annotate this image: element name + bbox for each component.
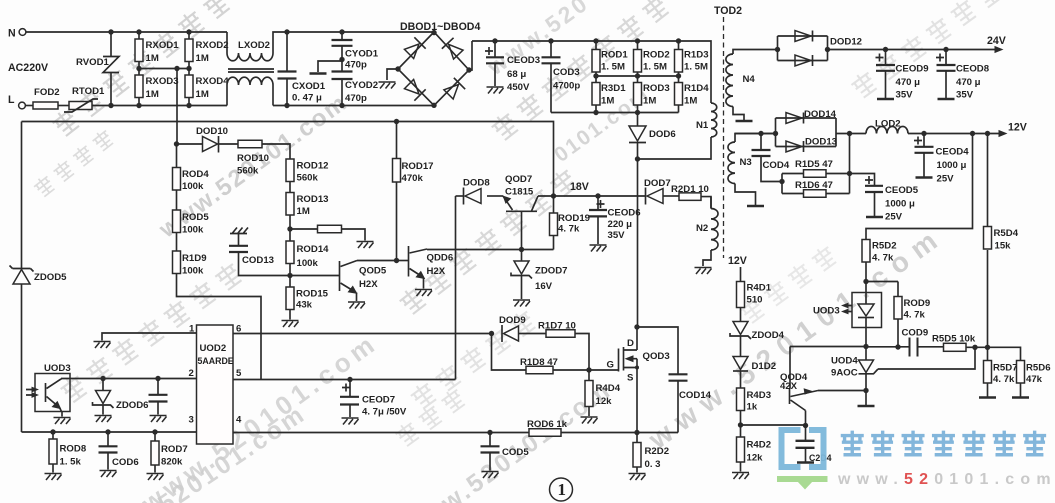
svg-text:N2: N2 — [696, 223, 708, 234]
node DOD9 — [489, 331, 494, 336]
resistor ROD5 — [173, 210, 181, 233]
wire 12V rail — [908, 133, 1000, 135]
wire startup rail — [22, 122, 554, 197]
wire bridge left to ground — [387, 69, 398, 80]
node source bottom — [634, 430, 639, 435]
svg-text:820k: 820k — [161, 457, 183, 468]
ground CY mid — [310, 73, 327, 75]
svg-text:ROD6 1k: ROD6 1k — [527, 419, 568, 430]
wire ZDOD6 bottom — [102, 406, 104, 415]
wire COD14 branch — [637, 327, 678, 374]
node DOD12 right — [825, 47, 830, 52]
wire DOD7 to R2D1 — [663, 195, 679, 197]
svg-text:ROD2: ROD2 — [643, 50, 670, 61]
wire pin5 row — [233, 379, 456, 381]
wire CYOD2 stem — [341, 79, 343, 106]
wire COD3 stems — [550, 41, 552, 113]
svg-text:S: S — [627, 373, 634, 384]
wire drain vertical — [637, 159, 639, 327]
wire diodes to LOD2 — [836, 133, 866, 135]
svg-text:R2D1 10: R2D1 10 — [671, 184, 709, 195]
diode DBOD2 — [442, 38, 464, 60]
svg-text:100k: 100k — [182, 225, 204, 236]
svg-text:35V: 35V — [956, 90, 974, 101]
watermark glyph row — [58, 260, 244, 405]
ground R2D2 — [629, 474, 646, 481]
wire RXOD4 leads — [188, 69, 190, 106]
svg-text:COD14: COD14 — [679, 390, 712, 401]
resistor RXOD1 — [135, 39, 143, 62]
svg-text:COD5: COD5 — [502, 447, 529, 458]
svg-text:G: G — [607, 360, 614, 371]
capacitor CEOD3 — [485, 47, 493, 55]
varistor RVOD1 — [103, 32, 119, 106]
optocoupler UOD3 LED — [852, 293, 882, 328]
svg-text:C1815: C1815 — [505, 187, 534, 198]
svg-text:ROD19: ROD19 — [558, 213, 590, 224]
diode DOD10 — [203, 137, 218, 152]
svg-text:1000 μ: 1000 μ — [937, 160, 967, 171]
wire LXOD2 top exit — [273, 32, 434, 53]
wire ROD3 leads — [637, 76, 639, 113]
wire CEOD5 bottom stem — [874, 192, 876, 217]
core LXOD2 — [228, 69, 274, 72]
svg-text:ROD3: ROD3 — [643, 83, 670, 94]
node COD6 — [105, 429, 110, 434]
svg-text:R1D4: R1D4 — [684, 83, 709, 94]
resistor unlabeled — [318, 225, 342, 233]
svg-text:1M: 1M — [297, 206, 310, 217]
svg-text:N: N — [8, 28, 16, 40]
winding N2 — [711, 208, 718, 250]
svg-text:D1D2: D1D2 — [752, 361, 777, 372]
svg-text:L: L — [8, 94, 15, 106]
wire L to fuse — [25, 105, 33, 107]
wire R4D1 top lead — [740, 267, 742, 282]
svg-text:QOD7: QOD7 — [505, 174, 532, 185]
svg-text:470 μ: 470 μ — [896, 77, 921, 88]
wire R4D2 bottom lead — [740, 462, 742, 472]
wire COD6 stem — [107, 432, 109, 446]
wire ROD6 right — [561, 432, 678, 434]
svg-text:ROD13: ROD13 — [297, 194, 329, 205]
watermark glyph row — [397, 167, 580, 317]
watermark glyph row — [393, 386, 467, 448]
wire COD5 stem — [489, 433, 491, 447]
svg-text:H2X: H2X — [427, 266, 446, 277]
node UOD4 anode — [863, 388, 868, 393]
svg-text:560k: 560k — [237, 166, 259, 177]
svg-text:1. 5M: 1. 5M — [643, 62, 667, 73]
svg-text:R4D1: R4D1 — [747, 283, 772, 294]
wire COD5 bottom — [489, 453, 491, 471]
node ROD1 top — [593, 38, 598, 43]
svg-text:4. 7k: 4. 7k — [872, 253, 894, 264]
watermark glyph row — [32, 128, 115, 199]
wire LED to ROD9 top — [866, 281, 898, 283]
wire R2D2 top lead — [636, 433, 638, 443]
wire pin6 row — [233, 333, 492, 335]
wire ROD12-ROD13 — [289, 182, 291, 193]
ground N3 — [747, 205, 764, 207]
wire R1D3 leads — [678, 41, 680, 76]
node 12V tapD — [985, 131, 990, 136]
diode DOD6 — [629, 126, 646, 141]
terminal L — [19, 102, 26, 109]
wire DOD10 anode lead — [177, 143, 203, 145]
svg-text:470p: 470p — [345, 60, 367, 71]
svg-text:DOD9: DOD9 — [499, 315, 526, 326]
wire 12V to R5D2 — [866, 134, 973, 240]
svg-text:4. 7k: 4. 7k — [558, 224, 580, 235]
svg-text:0. 3: 0. 3 — [645, 459, 661, 470]
svg-text:R4D4: R4D4 — [596, 383, 621, 394]
ground R4D2 — [732, 473, 749, 480]
wire R1D4 leads — [678, 76, 680, 113]
wire RXOD2 leads — [188, 32, 190, 69]
wire QDD6 emitter down — [423, 278, 425, 289]
node COD3 — [548, 38, 553, 43]
svg-text:1k: 1k — [747, 402, 758, 413]
wire ROD13 bottom lead — [289, 215, 291, 229]
node LED bottom — [863, 344, 868, 349]
svg-text:1M: 1M — [643, 96, 656, 107]
wire QOD5 emitter down — [356, 293, 358, 302]
diode ZDOD4 zener — [733, 322, 748, 335]
svg-text:R1D9: R1D9 — [182, 253, 207, 264]
node CXOD1 top — [284, 29, 289, 34]
wire C2D4 bottom — [805, 448, 807, 463]
wire ROD7 top lead — [154, 432, 156, 441]
svg-text:CEOD9: CEOD9 — [896, 64, 929, 75]
ground CEOD3 — [487, 87, 504, 94]
wire R5D7 bottom lead — [987, 384, 989, 397]
svg-text:N3: N3 — [740, 157, 752, 168]
svg-text:DOD6: DOD6 — [649, 129, 676, 140]
svg-text:4: 4 — [236, 415, 242, 426]
node bot1 — [593, 110, 598, 115]
resistor R1D9 — [173, 251, 181, 274]
wire COD4 top stem — [760, 134, 762, 150]
wire RX mid row — [139, 68, 189, 70]
wire snubber mid rail — [596, 75, 679, 77]
svg-text:UOD3: UOD3 — [44, 363, 71, 374]
svg-text:ZDOD5: ZDOD5 — [34, 272, 67, 283]
wire QOD4 collector lead — [805, 411, 807, 426]
wire QDD6 collector — [426, 249, 428, 251]
node DOD10 — [174, 141, 179, 146]
svg-text:24V: 24V — [987, 35, 1006, 47]
svg-text:COD9: COD9 — [902, 328, 929, 339]
resistor ROD4 — [173, 168, 181, 191]
winding N1 — [711, 103, 717, 137]
svg-text:www.520101.com: www.520101.com — [837, 471, 1055, 488]
watermark logo green arrow — [777, 476, 828, 490]
capacitor CEOD4 — [914, 137, 922, 145]
node QOD4 collector — [803, 423, 808, 428]
svg-text:15k: 15k — [995, 241, 1012, 252]
wire QOD7 base lead — [521, 211, 523, 249]
wire drain node to N1 — [638, 137, 712, 159]
resistor ROD19 — [550, 213, 558, 236]
svg-text:N1: N1 — [696, 120, 709, 131]
wire CEOD5 feed — [850, 174, 875, 186]
ground CEOD6 — [590, 245, 607, 252]
wire R4D4 bottom lead — [588, 407, 590, 417]
shunt reference UOD4 — [859, 360, 874, 373]
svg-text:47k: 47k — [1026, 374, 1043, 385]
wire QOD7 emitter lead — [487, 195, 503, 197]
node CEOD4 — [921, 131, 926, 136]
svg-text:RXOD2: RXOD2 — [196, 40, 229, 51]
node ROD9 bottom — [895, 344, 900, 349]
svg-text:ROD17: ROD17 — [402, 161, 434, 172]
svg-text:4700p: 4700p — [553, 81, 580, 92]
wire R1D5 left lead — [782, 173, 804, 175]
wire R4D3 node row — [741, 424, 806, 426]
node QOD5 base — [287, 273, 292, 278]
wire R3D1 leads — [595, 76, 597, 113]
svg-text:R5D7: R5D7 — [993, 363, 1018, 374]
svg-text:R1D7 10: R1D7 10 — [538, 321, 576, 332]
wire R1D6 right lead — [826, 193, 850, 195]
svg-text:CEOD8: CEOD8 — [956, 64, 990, 75]
watermark logo brackets — [782, 430, 824, 467]
ground N4 — [736, 120, 753, 122]
wire ROD15 leads — [289, 276, 291, 320]
svg-text:12k: 12k — [747, 453, 764, 464]
wire LXOD2 bottom exit — [272, 85, 274, 106]
wire node to hres — [290, 228, 318, 230]
wire DOD8 to pin5 vertical — [455, 196, 457, 380]
svg-text:560k: 560k — [297, 173, 319, 184]
wire N3 to diodes — [735, 133, 776, 135]
svg-text:4. 7k: 4. 7k — [993, 374, 1015, 385]
svg-text:4. 7k: 4. 7k — [904, 310, 926, 321]
svg-text:100k: 100k — [182, 181, 204, 192]
svg-text:42X: 42X — [780, 381, 798, 392]
resistor ROD17 — [393, 159, 401, 183]
svg-text:R4D2: R4D2 — [747, 440, 772, 451]
wire QDD6 base wire — [397, 260, 409, 262]
svg-text:1: 1 — [558, 480, 567, 499]
watermark glyph row — [408, 308, 538, 411]
capacitor COD14 — [669, 374, 688, 380]
node ROD2 top — [635, 38, 640, 43]
svg-text:R5D2: R5D2 — [872, 241, 897, 252]
resistor ROD9 — [894, 297, 902, 320]
ground COD13 inverted — [230, 228, 248, 234]
resistor R1D4 — [675, 83, 683, 106]
wire COD4 bottom — [761, 156, 782, 182]
wire ref wire — [878, 347, 975, 369]
arrow 24V — [995, 46, 1004, 53]
wire N2 bottom lead — [703, 250, 711, 266]
svg-text:TOD2: TOD2 — [714, 5, 742, 17]
resistor R4D4 — [585, 381, 593, 407]
svg-text:4. 7μ /50V: 4. 7μ /50V — [362, 407, 407, 418]
wire DOD9 to R1D7 — [519, 333, 547, 335]
diode D1D2 — [733, 357, 748, 370]
node CEOD9 — [883, 47, 888, 52]
node R1D5 bracket — [779, 179, 784, 184]
node bracket right — [847, 171, 852, 176]
node RVOD1 bottom — [108, 103, 113, 108]
wire DOD10 to ROD10 — [219, 143, 238, 145]
wire UOD4 anode gnd — [865, 391, 867, 406]
watermark footer CJK — [841, 431, 1046, 456]
wire QOD4 emitter row — [818, 390, 866, 392]
resistor RXOD4 — [185, 75, 193, 98]
wire COD13 bottom — [239, 252, 291, 276]
svg-text:UOD4: UOD4 — [831, 356, 858, 367]
wire D1D2 to R4D3 — [740, 372, 742, 389]
wire R1D8 to nodeB — [553, 369, 589, 371]
diode DBOD1 — [403, 37, 425, 59]
svg-text:LOD2: LOD2 — [875, 119, 901, 130]
svg-text:1. 5M: 1. 5M — [601, 62, 625, 73]
svg-text:DOD13: DOD13 — [805, 137, 837, 148]
resistor ROD14 — [286, 241, 294, 264]
svg-text:COD3: COD3 — [553, 67, 580, 78]
svg-text:0. 47 μ: 0. 47 μ — [292, 93, 322, 104]
wire ZDOD7 bottom lead — [521, 276, 523, 299]
node CYOD2 bottom — [339, 103, 344, 108]
svg-text:5AARDE: 5AARDE — [198, 356, 234, 366]
page number 1 circled — [550, 478, 573, 501]
node CEOD6 top — [595, 193, 600, 198]
svg-text:470k: 470k — [402, 173, 424, 184]
svg-text:ZDOD7: ZDOD7 — [535, 266, 568, 277]
resistor ROD2 — [634, 50, 642, 73]
svg-text:25V: 25V — [885, 212, 903, 223]
wire R1D9 to pin5 — [177, 274, 262, 380]
capacitor COD13 — [229, 246, 248, 252]
resistor RXOD2 — [185, 39, 193, 62]
node RXOD3 bottom — [136, 103, 141, 108]
optocoupler UOD3 phototransistor — [35, 374, 70, 412]
svg-text:1M: 1M — [146, 89, 159, 100]
svg-text:510: 510 — [747, 295, 763, 306]
svg-text:R5D4: R5D4 — [994, 228, 1019, 239]
ground QOD5 — [348, 302, 365, 309]
svg-text:R5D6: R5D6 — [1026, 363, 1051, 374]
resistor ROD12 — [286, 159, 294, 182]
wire pin2 row — [61, 378, 197, 380]
wire R4D3 bottom lead — [740, 411, 742, 438]
node R5D4 bottom — [985, 345, 990, 350]
terminal N — [19, 29, 26, 36]
wire bridge right up — [469, 41, 472, 70]
svg-text:CXOD1: CXOD1 — [292, 81, 326, 92]
wire N2 top lead — [710, 197, 712, 209]
wire ROD7 bottom lead — [154, 465, 156, 473]
svg-text:N4: N4 — [743, 74, 756, 85]
wire R1D6 left lead — [782, 193, 804, 195]
resistor ROD10 — [238, 140, 262, 148]
wire pin1 — [102, 333, 197, 341]
wire CEOD4 stems — [923, 134, 925, 178]
winding N3 — [728, 142, 735, 184]
node CEOD3 — [492, 38, 497, 43]
node bot2 — [635, 110, 640, 115]
svg-text:ROD12: ROD12 — [297, 161, 329, 172]
svg-text:RXOD4: RXOD4 — [196, 76, 230, 87]
ground bridge minus — [379, 82, 396, 89]
ground pin1 — [94, 342, 111, 349]
svg-text:RXOD3: RXOD3 — [146, 76, 179, 87]
wire ROD14 leads — [289, 229, 291, 276]
svg-text:1000 μ: 1000 μ — [885, 199, 915, 210]
svg-text:QOD5: QOD5 — [359, 266, 387, 277]
svg-text:CYOD2: CYOD2 — [345, 80, 378, 91]
svg-text:16V: 16V — [535, 281, 553, 292]
svg-text:COD13: COD13 — [242, 255, 274, 266]
wire R2D1 to N2 — [701, 197, 711, 209]
svg-text:ROD1: ROD1 — [601, 50, 628, 61]
fuse FOD2 — [33, 102, 58, 109]
svg-text:ROD5: ROD5 — [182, 212, 209, 223]
wire QOD5 collector row — [357, 260, 397, 262]
wire CEOD6 stems — [597, 196, 599, 244]
svg-text:68 μ: 68 μ — [507, 69, 526, 80]
thermistor RTOD1 — [69, 102, 92, 110]
svg-text:DOD8: DOD8 — [463, 178, 490, 189]
node QOD3 source — [635, 366, 639, 370]
ground C2D4 — [797, 462, 814, 464]
watermark glyph row — [50, 0, 233, 138]
svg-text:12k: 12k — [596, 396, 613, 407]
wire N line — [26, 31, 227, 33]
wire ROD8 bottom lead — [52, 464, 54, 473]
resistor ROD1 — [592, 50, 600, 73]
wire R2D2 bottom lead — [636, 467, 638, 473]
wire ROD19 leads — [553, 196, 555, 250]
wire QOD3 mid tie — [636, 359, 638, 368]
ground CEOD7 — [342, 418, 359, 425]
svg-text:25V: 25V — [937, 174, 955, 185]
wire ROD17 leads — [396, 122, 398, 261]
transformer core dashed line — [723, 17, 725, 258]
svg-text:AC220V: AC220V — [8, 62, 48, 74]
diode DBOD3 — [403, 78, 425, 100]
ground ZDOD6 — [95, 416, 112, 423]
svg-text:ROD9: ROD9 — [904, 298, 931, 309]
svg-text:R4D3: R4D3 — [747, 390, 772, 401]
svg-text:100k: 100k — [182, 266, 204, 277]
ground UOD3 left — [54, 418, 71, 425]
wire CEOD8 stems — [945, 50, 947, 99]
wire left rail top — [21, 122, 23, 269]
svg-text:UOD3: UOD3 — [813, 306, 840, 317]
svg-text:5: 5 — [236, 368, 242, 379]
resistor R2D1 — [679, 193, 701, 201]
wire ROD10 to ROD12 — [262, 144, 290, 159]
wire RTOD1 to LXOD2 — [92, 105, 227, 107]
watermark glyph row — [738, 243, 839, 325]
resistor ROD3 — [634, 83, 642, 106]
wire N3 bottom lead — [735, 184, 756, 206]
svg-text:470p: 470p — [345, 93, 367, 104]
wire feedback row — [866, 346, 910, 348]
wire N4 bottom lead — [733, 107, 744, 121]
svg-text:LXOD2: LXOD2 — [238, 40, 270, 51]
wire 18V rail — [538, 195, 646, 197]
wire DOD8 left lead — [456, 195, 464, 197]
capacitor C2D4 — [796, 441, 815, 448]
node ROD13 bottom — [287, 226, 292, 231]
node ZDOD6 top — [100, 376, 105, 381]
